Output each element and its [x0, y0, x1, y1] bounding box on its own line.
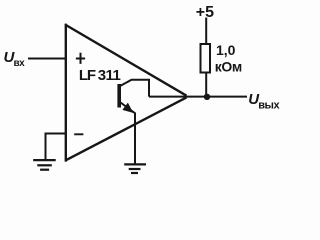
resistor R1 1,0 кОм body [201, 44, 211, 73]
wire +5 to resistor R1 [205, 18, 207, 45]
transistor Q1 collector wire [121, 80, 150, 97]
wire inverting input [46, 134, 67, 161]
svg-text:вых: вых [258, 100, 280, 112]
wire input to non-inverting pin [28, 58, 66, 60]
svg-text:1,0: 1,0 [216, 42, 236, 58]
wire resistor R1 to output node [205, 73, 207, 97]
pin - (inverting) [74, 133, 83, 135]
svg-text:вх: вх [14, 58, 26, 69]
op-amp U1 LF311 triangle [65, 24, 186, 162]
transistor Q1 emitter wire [121, 103, 136, 165]
transistor Q1 (open-collector output, base bar) [117, 84, 121, 108]
ground (emitter) [124, 164, 146, 173]
node output junction dot [204, 94, 210, 100]
transistor Q1 emitter arrowhead [123, 104, 132, 113]
svg-text:+5: +5 [196, 4, 214, 21]
svg-text:311: 311 [98, 67, 121, 84]
node Uвых output label [248, 91, 280, 112]
ground (inverting input) [33, 160, 56, 170]
node Uвх input label [4, 49, 26, 69]
svg-text:кОм: кОм [215, 58, 242, 74]
svg-text:LF: LF [79, 67, 96, 84]
pin + (non-inverting) [76, 53, 85, 64]
wire output (collector to output node and label) [149, 96, 247, 98]
